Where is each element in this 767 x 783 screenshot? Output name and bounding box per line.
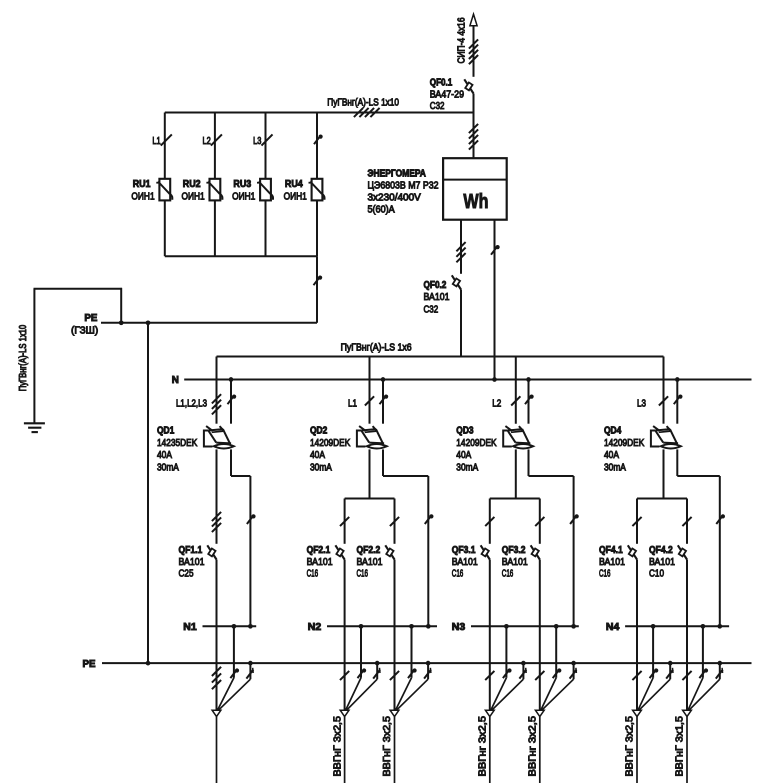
wire hatch 4 cond [354,108,380,117]
varistor RU3 [257,179,273,201]
bus N [184,379,751,381]
label QF2.1 ВА101 С16 [307,545,333,580]
wire group2 branch b [394,499,396,544]
wire arrester bottom bus [165,255,317,257]
wire group1 phase drop [216,357,218,424]
contact phase [390,671,399,680]
svg-text:PE: PE [83,659,96,670]
wire hatch 3 cond [456,242,465,262]
bus N2 [327,625,437,627]
svg-text:С16: С16 [307,569,319,580]
label QD4 14209DEK 40А 30mA [604,426,644,474]
varistor RU4 [309,179,325,201]
wire cable2.1 neutral [346,626,361,710]
cable head 4.1 [633,710,642,716]
label ВВГнг 3х2,5 [528,716,539,777]
contact phase [340,517,349,526]
label ВВГнГ 3х2,5 [332,716,343,777]
wire arrester branch 2 upper [214,113,216,179]
svg-text:L2: L2 [492,399,501,410]
wire cable3.2 PE [542,663,574,710]
contact N bolt [425,514,434,524]
wire group2 split bar [345,498,395,500]
wire group2 phase drop [369,357,371,424]
meter PI1 box [443,158,507,220]
cable head 1.1 [212,710,221,716]
contact N with bolt [314,135,323,145]
junction N4 jog [717,624,722,629]
label N4 [606,622,620,633]
wire hatch 4 cond [469,124,478,150]
svg-text:L1: L1 [152,136,160,147]
svg-text:QF2.1: QF2.1 [307,545,331,556]
junction PE cable [248,661,253,666]
svg-text:RU3: RU3 [233,179,251,190]
contact N bolt [247,514,256,524]
ground [24,423,45,432]
svg-text:ВВГнГ 3х2,5: ВВГнГ 3х2,5 [382,716,393,777]
wire group3 QD out [515,449,517,498]
label QD1 14235DEK 40А 30mA [157,426,197,474]
contact N bolt [358,668,367,678]
svg-text:ПуГВнг(А)-LS 1х10: ПуГВнг(А)-LS 1х10 [327,98,399,109]
bus PE [102,662,752,664]
label QF4.2 ВА101 С10 [649,545,675,580]
contact phase [390,517,399,526]
wire cable4.1 out [636,717,638,783]
wire group4 phase drop [663,357,665,424]
label ВВГнГ 3х1,5 [675,716,686,777]
wire group3 split bar [490,498,540,500]
junction N3 jog [571,624,576,629]
wire group2 branch a [344,499,346,544]
svg-text:С16: С16 [452,569,464,580]
label QF0.1 ВА47-29 С32 [430,77,464,112]
contact PE [246,668,253,679]
junction PE cable [521,661,526,666]
label L1,L2,L3 [176,399,207,410]
svg-text:ВВГнГ 3х2,5: ВВГнГ 3х2,5 [332,716,343,777]
cable head 3.1 [485,710,494,716]
label L1 [152,136,160,147]
contact phase [632,671,641,680]
contact phase [485,671,494,680]
wire group2 QD out [369,449,371,498]
label ПуГВнг(А)-LS 1х6 [341,343,412,354]
contact L3 [261,134,272,145]
svg-text:С16: С16 [599,569,611,580]
label Wh [463,191,488,213]
contact N bolt [230,668,239,678]
wire PE riser [147,323,149,663]
wire incoming supply line [473,15,475,77]
junction PE cable [668,661,673,666]
svg-text:14209DEK: 14209DEK [604,438,644,449]
cable head 2.1 [340,710,349,716]
svg-text:ВВГнг 3х2,5: ВВГнг 3х2,5 [478,716,489,777]
wire hatch 3 cond [212,512,221,532]
svg-text:QF0.1: QF0.1 [430,77,453,88]
svg-text:С10: С10 [649,569,664,580]
svg-text:QF0.2: QF0.2 [424,280,447,291]
label L2 [203,136,211,147]
wire cable1.1 neutral [218,626,234,710]
wire cable3.1 out [489,717,491,783]
label RU3 ОИН1 [232,179,255,203]
wire arrester branch 3 lower [265,200,267,256]
svg-text:L2: L2 [203,136,211,147]
breaker QF4.1 [628,545,637,559]
svg-text:С16: С16 [502,569,514,580]
junction PE cable [375,661,380,666]
contact phase [365,396,374,405]
contact N bolt [716,514,725,524]
wire cable2.2 out [394,717,396,783]
wire cable2.1 out [344,717,346,783]
svg-text:ВА101: ВА101 [599,557,625,568]
label N1 [183,622,197,633]
svg-text:40А: 40А [157,450,172,461]
contact phase [511,396,520,405]
svg-text:40А: 40А [456,450,471,461]
svg-text:PE: PE [84,313,97,324]
contact PE [519,668,526,679]
label QF0.2 ВА101 С32 [424,280,450,315]
svg-text:3х230/400V: 3х230/400V [368,193,421,204]
wire hatch 3 cond [212,667,221,689]
svg-text:L1,L2,L3: L1,L2,L3 [176,399,207,410]
wire arrester PE drop [316,256,318,323]
contact phase [659,396,668,405]
wire arrester branch 1 upper [164,113,166,179]
svg-text:QF1.1: QF1.1 [179,545,203,556]
wire QF4.2 out [686,560,688,711]
svg-text:С32: С32 [424,304,439,315]
wire group3 branch b [539,499,541,544]
wire group3 phase drop [515,357,517,424]
wire group1 neutral drop [230,380,232,424]
svg-text:L1: L1 [348,399,357,410]
wire group3 branch a [489,499,491,544]
svg-text:ВА101: ВА101 [649,557,675,568]
label RU1 ОИН1 [131,179,154,203]
label RU4 ОИН1 [284,179,307,203]
wire group4 branch a [636,499,638,544]
wire QF0.1 to meter [473,94,475,159]
rcd QD1 [204,426,234,448]
svg-text:ВА101: ВА101 [452,557,478,568]
wire group4 branch b [686,499,688,544]
svg-text:14235DEK: 14235DEK [157,438,197,449]
label QF1.1 ВА101 С25 [179,545,205,580]
wire cable2.1 PE [347,663,378,710]
wire QD1 to QF1.1 [216,449,218,543]
wire QF3.1 out [489,560,491,711]
svg-text:ЦЭ6803В М7 Р32: ЦЭ6803В М7 Р32 [368,180,439,191]
svg-text:ВА101: ВА101 [502,557,528,568]
wire group4 neutral drop [676,380,678,424]
breaker QF3.2 [531,545,540,559]
svg-text:30mA: 30mA [310,462,332,473]
wire hatch 3 cond [212,394,221,414]
wire group4 split bar [637,498,687,500]
label QF2.2 ВА101 С16 [357,545,383,580]
wire cable2.2 neutral [396,626,412,710]
contact phase [340,671,349,680]
label L1 [348,399,357,410]
breaker QF1.1 [207,545,216,559]
junction meter N [492,377,497,382]
rcd QD4 [651,426,681,448]
label PE [83,659,96,670]
label ВВГнГ 3х2,5 [382,716,393,777]
junction [119,320,124,325]
svg-text:14209DEK: 14209DEK [310,438,350,449]
label PE (ГЗШ) [71,313,98,337]
svg-text:N3: N3 [452,622,466,633]
bus N1 [203,625,257,627]
contact N bolt [503,668,512,678]
svg-text:С32: С32 [430,101,445,112]
junction PE cable [426,661,431,666]
contact PE [424,668,431,679]
wire group4 QD out [663,449,665,498]
contact PE [716,668,723,679]
svg-text:ОИН1: ОИН1 [232,192,255,203]
svg-text:(ГЗШ): (ГЗШ) [71,325,98,336]
svg-text:Wh: Wh [463,191,488,213]
svg-text:L3: L3 [253,136,261,147]
svg-text:ПуГВнг(А)-LS 1х10: ПуГВнг(А)-LS 1х10 [18,325,29,392]
svg-text:ВА101: ВА101 [424,292,450,303]
svg-text:L3: L3 [637,399,646,410]
wire group4 neutral jog [677,449,720,626]
contact N bolt [491,245,500,255]
wire arrester branch 4 lower [316,200,318,256]
label N3 [452,622,466,633]
wire group1 neutral jog [231,449,250,626]
label L3 [253,136,261,147]
contact L1 [161,134,172,145]
wire hatch 4 cond [469,39,478,64]
wire cable1.1 out [216,717,218,783]
contact phase [682,671,691,680]
bus N3 [471,625,579,627]
breaker QF2.1 [335,545,344,559]
svg-text:ОИН1: ОИН1 [182,192,205,203]
svg-text:14209DEK: 14209DEK [456,438,496,449]
junction PE cable [717,661,722,666]
varistor RU2 [206,179,222,201]
contact N bolt [553,668,562,678]
svg-text:N: N [172,375,179,386]
svg-text:ВА101: ВА101 [179,557,205,568]
wire group3 neutral jog [529,449,574,626]
wire QF0.2 to bus [460,290,462,357]
label QD3 14209DEK 40А 30mA [456,426,496,474]
svg-text:QD1: QD1 [157,426,175,437]
label QF3.2 ВА101 С16 [502,545,528,580]
contact N bolt [699,668,708,678]
wire QF2.1 out [344,560,346,711]
svg-text:30mA: 30mA [456,462,478,473]
svg-text:ПуГВнг(А)-LS 1х6: ПуГВнг(А)-LS 1х6 [341,343,412,354]
wire cable1.1 PE [219,663,251,710]
wire arrester branch 3 upper [265,113,267,179]
label QF4.1 ВА101 С16 [599,545,625,580]
junction N2 jog [426,624,431,629]
wire meter neutral out [494,220,496,380]
contact N bolt [674,395,683,405]
cable head 4.2 [683,710,692,716]
svg-text:QF3.1: QF3.1 [452,545,476,556]
wire QF1.1 out [216,560,218,711]
cable head 2.2 [390,710,399,716]
label QD2 14209DEK 40А 30mA [310,426,350,474]
svg-text:QF2.2: QF2.2 [357,545,381,556]
wire cable4.1 neutral [638,626,653,710]
rcd QD3 [503,426,533,448]
junction N3 cable [554,624,559,629]
svg-text:ВА47-29: ВА47-29 [430,89,464,100]
svg-text:ВА101: ВА101 [307,557,333,568]
svg-text:RU4: RU4 [285,179,303,190]
wire to earth electrode [34,288,123,423]
contact L2 [211,134,222,145]
svg-text:ОИН1: ОИН1 [131,192,154,203]
svg-text:QF3.2: QF3.2 [502,545,526,556]
breaker QF4.2 [678,545,687,559]
wire cable4.2 PE [689,663,720,710]
contact N bolt [650,668,659,678]
wire arrester branch 2 lower [214,200,216,256]
svg-text:ВВГнГ 3х1,5: ВВГнГ 3х1,5 [675,716,686,777]
wire QF4.1 out [636,560,638,711]
svg-text:ЭНЕРГОМЕРА: ЭНЕРГОМЕРА [368,169,427,180]
label N [172,375,179,386]
contact PE [373,668,380,679]
wire PE link [101,322,317,324]
junction PE riser [146,661,151,666]
label ВВГнг 3х2,5 [478,716,489,777]
contact N bolt [380,395,389,405]
contact phase [682,517,691,526]
cable head 3.2 [535,710,544,716]
svg-text:С16: С16 [357,569,369,580]
bus ПуГВнг(А)-LS 1х6 [217,356,664,358]
wire cable3.2 out [539,717,541,783]
svg-text:40А: 40А [310,450,325,461]
svg-text:ВА101: ВА101 [357,557,383,568]
svg-text:N2: N2 [308,622,322,633]
label RU2 ОИН1 [182,179,205,203]
svg-text:5(60)А: 5(60)А [368,204,395,215]
svg-text:QD3: QD3 [456,426,474,437]
svg-text:RU2: RU2 [183,179,201,190]
svg-text:ОИН1: ОИН1 [284,192,307,203]
cable head arrow [470,14,477,26]
wire feeder to arresters [165,112,474,114]
wire group3 neutral drop [528,380,530,424]
svg-text:30mA: 30mA [604,462,626,473]
breaker QF2.2 [385,545,394,559]
label L3 [637,399,646,410]
junction N2 cable [359,624,364,629]
contact phase [535,517,544,526]
contact N bolt [408,668,417,678]
wire QF2.2 out [394,560,396,711]
junction N2 cable [409,624,414,629]
junction N4 cable [651,624,656,629]
wire cable2.2 PE [397,663,429,710]
contact N bolt lower [314,276,323,286]
junction N group3 [526,377,531,382]
wire arrester branch 1 lower [164,200,166,256]
wire group2 neutral jog [383,449,428,626]
wire group2 neutral drop [382,380,384,424]
junction N1 jog [248,624,253,629]
junction [146,320,151,325]
wire meter phase out [460,220,462,274]
svg-text:QD2: QD2 [310,426,328,437]
contact phase [535,671,544,680]
contact N bolt [570,514,579,524]
breaker QF3.1 [481,545,490,559]
label N2 [308,622,322,633]
label ПуГВнг(А)-LS 1х10 [327,98,399,109]
svg-text:ВВГнГ 3х2,5: ВВГнГ 3х2,5 [625,716,636,777]
breaker QF0.1 [464,79,473,93]
contact N bolt [228,395,237,405]
svg-text:N4: N4 [606,622,620,633]
wire cable4.2 out [686,717,688,783]
svg-text:QF4.1: QF4.1 [599,545,623,556]
junction N group2 [381,377,386,382]
contact phase [632,517,641,526]
junction N group1 [229,377,234,382]
contact PE [570,668,577,679]
rcd QD2 [357,426,387,448]
wire cable4.1 PE [639,663,670,710]
label QF3.1 ВА101 С16 [452,545,478,580]
svg-text:QF4.2: QF4.2 [649,545,673,556]
contact phase [485,517,494,526]
wire cable3.1 neutral [491,626,507,710]
junction N1 cable [232,624,237,629]
wire cable3.1 PE [492,663,524,710]
junction N3 cable [504,624,509,629]
label СИП-4 4х16 [456,17,467,63]
svg-text:40А: 40А [604,450,619,461]
bus N4 [625,625,729,627]
label ЭНЕРГОМЕРА ЦЭ6803В М7 Р32 3х230/400V 5(60)А [368,169,439,216]
junction N4 cable [701,624,706,629]
wire cable3.2 neutral [541,626,556,710]
wire arrester branch 4 upper [316,113,318,179]
wire QF3.2 out [539,560,541,711]
label ПуГВнг(А)-LS 1х10 vertical [18,325,29,392]
svg-text:ВВГнг 3х2,5: ВВГнг 3х2,5 [528,716,539,777]
label ВВГнГ 3х2,5 [625,716,636,777]
svg-text:С25: С25 [179,569,194,580]
svg-text:N1: N1 [183,622,197,633]
svg-text:QD4: QD4 [604,426,622,437]
breaker QF0.2 [452,275,461,289]
junction N group4 [675,377,680,382]
svg-text:RU1: RU1 [133,179,151,190]
svg-text:СИП-4 4х16: СИП-4 4х16 [456,17,467,63]
svg-text:30mA: 30mA [157,462,179,473]
